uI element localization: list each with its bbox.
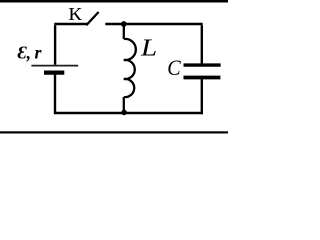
node top junction dot: [121, 21, 127, 27]
battery E,r thick plate (negative): [44, 70, 64, 74]
capacitor C top plate: [184, 63, 221, 66]
wire bottom segment: [54, 112, 202, 114]
wire right vertical lower: [201, 79, 203, 115]
svg-text:C: C: [167, 55, 181, 80]
node bottom junction dot: [121, 110, 127, 116]
svg-text:Ɛ, r: Ɛ, r: [18, 43, 43, 63]
wire left vertical (battery branch, bottom): [54, 75, 56, 115]
svg-text:L: L: [140, 34, 157, 61]
wire left vertical (battery branch, top): [54, 25, 56, 65]
wire top left segment: [54, 23, 88, 25]
wire middle branch lower: [123, 97, 125, 113]
inductor L coil: [124, 39, 136, 97]
switch K blade: [86, 12, 98, 25]
capacitor C bottom plate: [184, 76, 221, 80]
wire top right segment: [105, 23, 202, 25]
battery E,r thin plate (positive): [31, 65, 78, 67]
wire middle branch upper: [123, 24, 125, 39]
wire right vertical upper: [201, 25, 203, 64]
svg-text:К: К: [68, 5, 83, 25]
